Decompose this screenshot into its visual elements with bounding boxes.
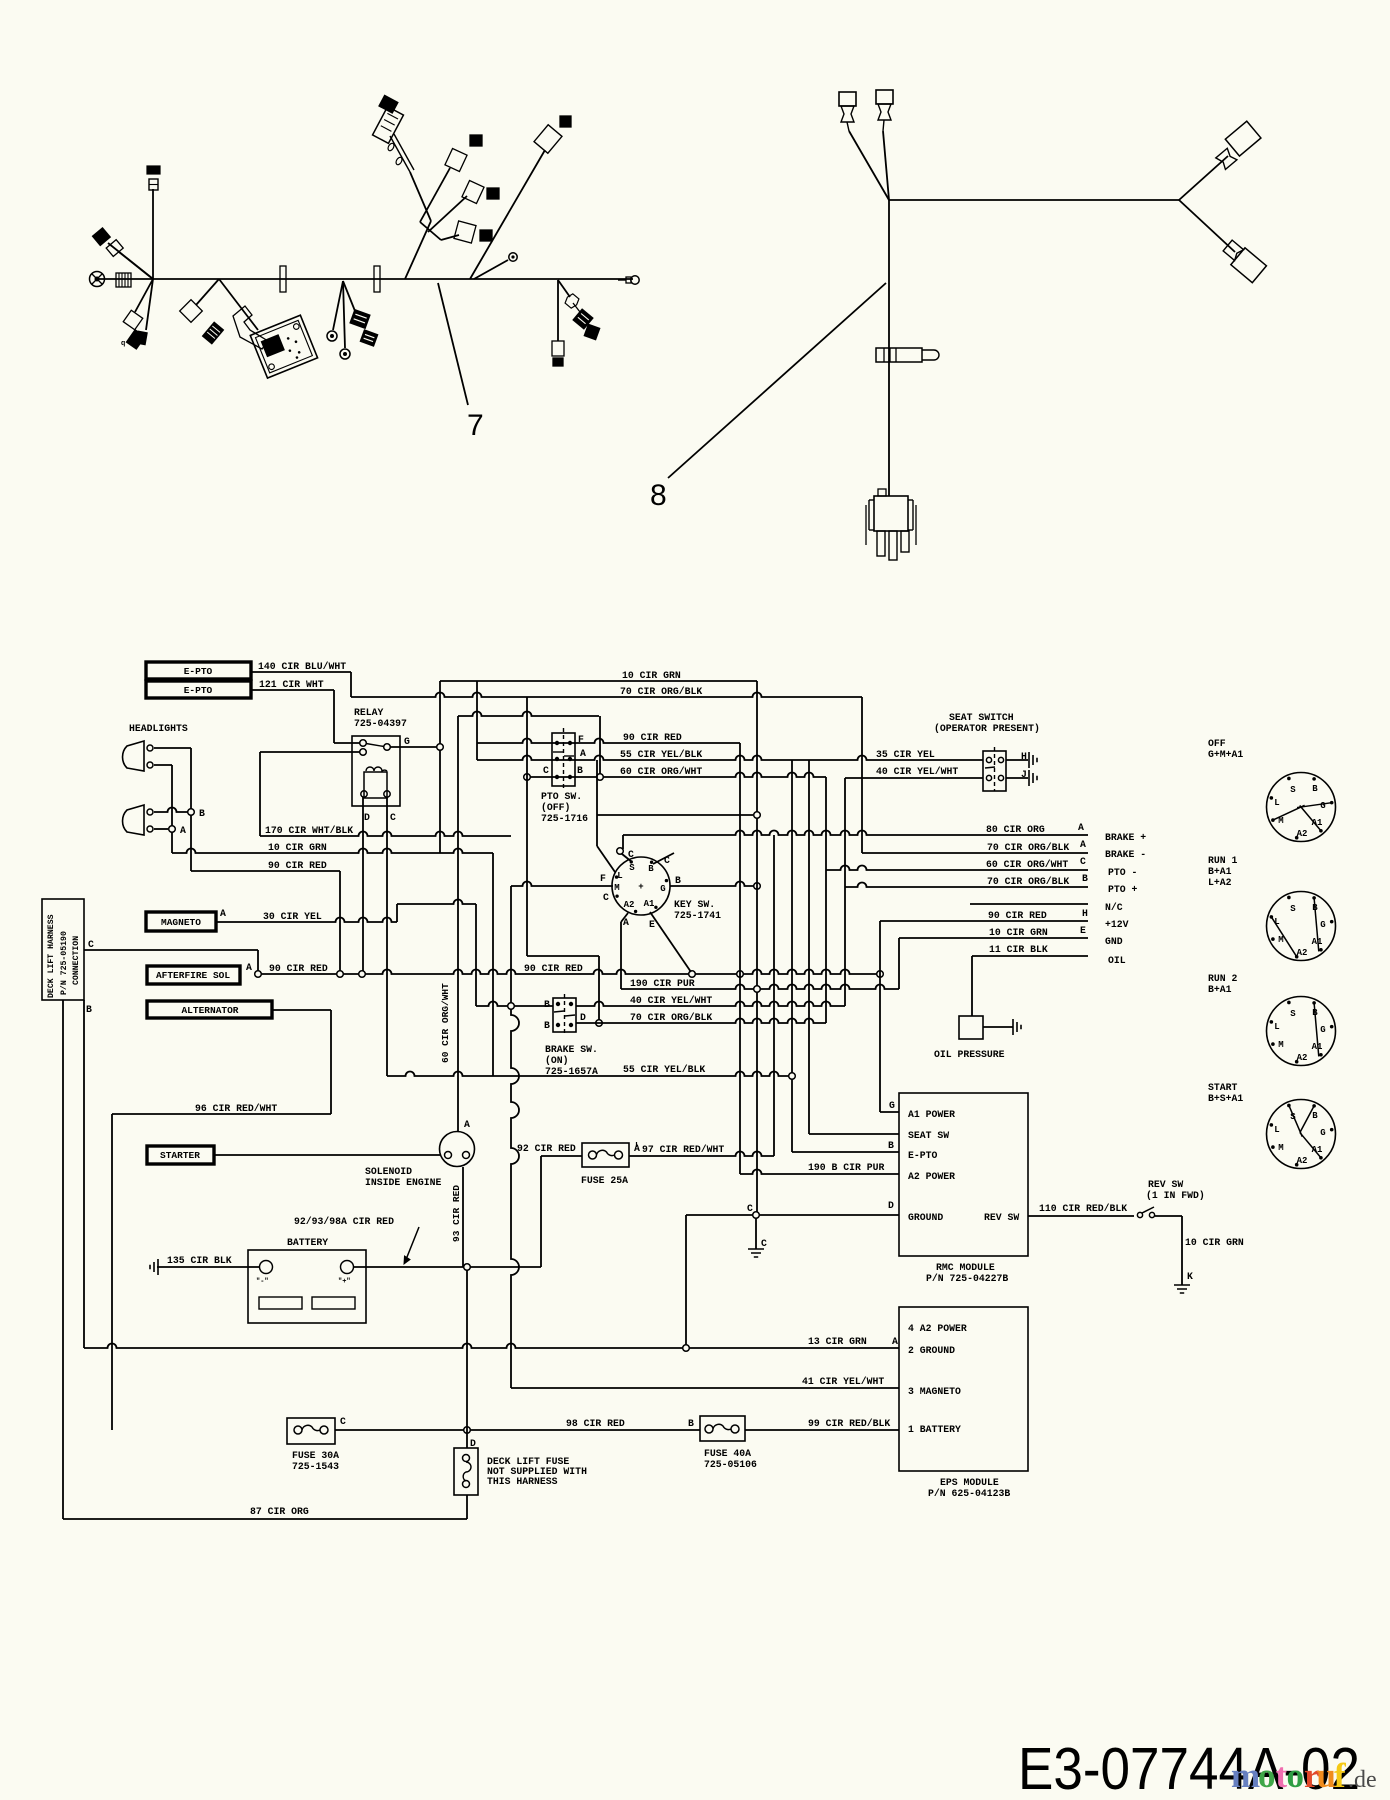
- module RMC MODULE P/N 725-04227B: [899, 1093, 1028, 1256]
- wire row 716: [458, 712, 599, 717]
- harness 7 ring terminal 1: [327, 331, 337, 341]
- harness 7 mounting bracket: [233, 306, 268, 349]
- harness 7 long diagonal branch: [470, 150, 545, 279]
- svg-text:B+A1: B+A1: [1208, 984, 1232, 995]
- module EPS MODULE P/N 625-04123B: [899, 1307, 1028, 1471]
- svg-text:A: A: [464, 1119, 470, 1130]
- wire key E diagonal: [650, 912, 691, 972]
- wire bus vertical x774: [773, 835, 775, 1156]
- harness 8 branch to upper right connector: [1179, 156, 1228, 200]
- wire headlight1 gnd: [154, 764, 172, 766]
- svg-text:KEY SW.: KEY SW.: [674, 899, 715, 910]
- svg-text:C: C: [1080, 856, 1086, 867]
- svg-text:PTO SW.: PTO SW.: [541, 791, 582, 802]
- svg-text:G: G: [1320, 801, 1325, 811]
- harness 7 big branch stem: [405, 221, 431, 279]
- svg-text:55 CIR YEL/BLK: 55 CIR YEL/BLK: [620, 749, 702, 760]
- svg-text:725-1716: 725-1716: [541, 813, 588, 824]
- wire 10 CIR GRN headlights: [172, 849, 493, 854]
- svg-text:S: S: [1290, 904, 1296, 914]
- wire relay lower contact to 170 CIR WHT/BLK: [260, 751, 360, 753]
- svg-text:90 CIR RED: 90 CIR RED: [524, 963, 583, 974]
- wire oil pressure drop: [971, 956, 973, 1016]
- connector ALTERNATOR: [147, 1001, 272, 1018]
- connector STARTER: [147, 1146, 214, 1164]
- svg-text:60 CIR ORG/WHT: 60 CIR ORG/WHT: [440, 983, 451, 1063]
- svg-text:10 CIR GRN: 10 CIR GRN: [1185, 1237, 1244, 1248]
- node PTO B right: [597, 774, 604, 781]
- svg-text:RUN 1: RUN 1: [1208, 855, 1238, 866]
- svg-text:SEAT SWITCH: SEAT SWITCH: [949, 712, 1014, 723]
- harness 7 branch lower-left 2: [146, 279, 153, 330]
- svg-text:(1 IN FWD): (1 IN FWD): [1146, 1190, 1205, 1201]
- svg-text:110 CIR RED/BLK: 110 CIR RED/BLK: [1039, 1203, 1127, 1214]
- svg-text:q: q: [121, 340, 125, 347]
- svg-text:93 CIR RED: 93 CIR RED: [451, 1185, 462, 1242]
- svg-text:13 CIR GRN: 13 CIR GRN: [808, 1336, 867, 1347]
- relay coil: [364, 772, 387, 798]
- fuse DECK LIFT FUSE: [454, 1448, 478, 1495]
- svg-text:RUN 2: RUN 2: [1208, 973, 1238, 984]
- wire key B row to node: [670, 882, 757, 887]
- wire 93 CIR RED: [462, 1167, 464, 1267]
- pin C relay wire: [386, 797, 388, 1076]
- svg-text:"-": "-": [256, 1278, 269, 1286]
- wire 90 CIR RED +12V: [880, 920, 1088, 922]
- wire 40 CIR YEL/WHT to seat: [845, 777, 983, 779]
- svg-text:90 CIR RED: 90 CIR RED: [268, 860, 327, 871]
- harness 7 ring branch: [474, 260, 508, 279]
- wire 140 CIR BLU/WHT: [251, 671, 351, 673]
- wire 70 CIR ORG/BLK brake minus: [862, 852, 1088, 854]
- svg-text:A2 POWER: A2 POWER: [908, 1171, 955, 1182]
- svg-text:B: B: [544, 1020, 550, 1031]
- harness 7 inline clip 1: [280, 266, 286, 292]
- svg-text:30 CIR YEL: 30 CIR YEL: [263, 911, 322, 922]
- harness 7 ring terminal branch: [333, 281, 343, 330]
- wire 90 CIR RED headlights: [191, 870, 340, 872]
- svg-text:90 CIR RED: 90 CIR RED: [623, 732, 682, 743]
- svg-text:A: A: [220, 908, 226, 919]
- svg-text:M: M: [614, 883, 619, 893]
- voltage regulator module on harness 7: [250, 315, 317, 378]
- wire key M to brake: [510, 886, 512, 1006]
- svg-text:96 CIR RED/WHT: 96 CIR RED/WHT: [195, 1103, 277, 1114]
- svg-text:F: F: [600, 873, 606, 884]
- wire relay top-left contact: [334, 742, 360, 744]
- wire 10 CIR GRN top: [440, 680, 757, 682]
- svg-text:725-05106: 725-05106: [704, 1459, 757, 1470]
- svg-text:70 CIR ORG/BLK: 70 CIR ORG/BLK: [630, 1012, 712, 1023]
- svg-text:SEAT SW: SEAT SW: [908, 1130, 949, 1141]
- wire 55 CIR YEL/BLK lower: [387, 1072, 792, 1077]
- harness 8 connector 1: [839, 92, 856, 106]
- svg-text:BRAKE -: BRAKE -: [1105, 849, 1146, 860]
- svg-text:B: B: [1312, 1111, 1318, 1121]
- harness 8 vertical drop wire: [888, 200, 890, 496]
- harness 8 upper right connector: [1225, 121, 1261, 156]
- harness 7 right end eyelet: [618, 279, 626, 281]
- svg-text:55 CIR YEL/BLK: 55 CIR YEL/BLK: [623, 1064, 705, 1075]
- svg-text:S: S: [1290, 1009, 1296, 1019]
- battery BATTERY: [248, 1250, 366, 1323]
- wire 90 CIR RED headlights drop: [339, 871, 341, 974]
- svg-text:2 GROUND: 2 GROUND: [908, 1345, 955, 1356]
- wire 99 CIR RED/BLK: [745, 1429, 899, 1431]
- svg-text:FUSE 30A: FUSE 30A: [292, 1450, 339, 1461]
- wire bus vertical x809 (seat sw): [808, 760, 810, 1134]
- wire row 815: [597, 814, 753, 816]
- svg-text:OIL PRESSURE: OIL PRESSURE: [934, 1049, 1005, 1060]
- wire alternator to 96 CIR RED/WHT: [272, 1009, 331, 1011]
- svg-text:B: B: [1082, 873, 1088, 884]
- wire headlights B down to 90 CIR RED: [190, 815, 192, 871]
- svg-text:C: C: [390, 812, 396, 823]
- wire 90 CIR RED key row: [477, 739, 740, 744]
- svg-text:STARTER: STARTER: [160, 1150, 200, 1161]
- svg-text:E: E: [1080, 925, 1086, 936]
- svg-text:D: D: [364, 812, 370, 823]
- svg-text:90 CIR RED: 90 CIR RED: [269, 963, 328, 974]
- svg-text:A: A: [892, 1336, 898, 1347]
- wire 80 CIR ORG left drop: [622, 835, 624, 849]
- svg-text:S: S: [1290, 785, 1296, 795]
- svg-text:HEADLIGHTS: HEADLIGHTS: [129, 723, 188, 734]
- wire battery plus: [354, 1266, 542, 1268]
- wire seat J: [1006, 777, 1028, 779]
- svg-text:A1: A1: [644, 899, 655, 909]
- harness 8 branch to connector 1: [849, 131, 889, 200]
- svg-text:10 CIR GRN: 10 CIR GRN: [268, 842, 327, 853]
- node x757 row815: [754, 812, 761, 819]
- svg-text:40 CIR YEL/WHT: 40 CIR YEL/WHT: [630, 995, 712, 1006]
- node key B row: [754, 883, 761, 890]
- harness 7 top connector: [149, 179, 158, 190]
- node 90 CIR RED at relay D: [359, 971, 366, 978]
- svg-text:140 CIR BLU/WHT: 140 CIR BLU/WHT: [258, 661, 346, 672]
- svg-text:OFF: OFF: [1208, 738, 1226, 749]
- wire 135 CIR BLK: [157, 1266, 260, 1268]
- wire brake B left: [476, 1002, 553, 1007]
- svg-text:L: L: [1274, 1125, 1279, 1135]
- svg-text:GND: GND: [1105, 936, 1123, 947]
- svg-text:B+S+A1: B+S+A1: [1208, 1093, 1243, 1104]
- ground rev sw: [1174, 1285, 1190, 1293]
- wire 92 CIR RED to battery: [540, 1156, 542, 1267]
- wire vertical from 121 CIR WHT to relay: [333, 690, 335, 743]
- svg-text:C: C: [628, 849, 634, 860]
- svg-text:121 CIR WHT: 121 CIR WHT: [259, 679, 324, 690]
- svg-text:m: m: [1231, 1756, 1260, 1795]
- svg-text:B: B: [86, 1004, 92, 1015]
- svg-text:B: B: [1312, 784, 1318, 794]
- harness 8 bottom connector: [874, 496, 908, 531]
- wire 96 CIR RED/WHT: [112, 1113, 331, 1115]
- wire relay G vertical: [439, 681, 441, 744]
- harness 7 inline clip 3: [374, 266, 380, 292]
- wire 10 CIR GRN GND: [899, 937, 1088, 939]
- node C ground: [753, 1212, 760, 1219]
- svg-text:CONNECTION: CONNECTION: [72, 936, 81, 985]
- key switch KEY SW 725-1741: [612, 857, 670, 915]
- node 55 CIR YEL/BLK at x792: [789, 1073, 796, 1080]
- wire bus vertical x792 (E-PTO): [791, 760, 793, 1152]
- switch BRAKE SW 725-1657A: [553, 998, 576, 1032]
- svg-text:G+M+A1: G+M+A1: [1208, 749, 1243, 760]
- node 90 CIR RED at headlight drop: [337, 971, 344, 978]
- wire bus vertical x880 (+12V): [879, 921, 881, 1112]
- svg-text:B: B: [648, 864, 654, 874]
- svg-text:L: L: [1274, 798, 1279, 808]
- svg-text:D: D: [888, 1200, 894, 1211]
- node afterfire A: [255, 971, 262, 978]
- svg-text:C: C: [340, 1416, 346, 1427]
- harness 7 spring boot: [203, 322, 224, 344]
- svg-text:92/93/98A CIR RED: 92/93/98A CIR RED: [294, 1216, 394, 1227]
- wire 60 CIR ORG/WHT row: [530, 773, 826, 778]
- connector DECK LIFT HARNESS P/N 725-05190: [42, 899, 84, 1000]
- harness 8 branch to lower right connector: [1179, 200, 1235, 252]
- wire deck lift C: [84, 949, 258, 951]
- harness 8 trunk horizontal: [889, 199, 1179, 201]
- svg-text:S: S: [629, 863, 635, 873]
- wire headlights A down to 10 CIR GRN: [171, 832, 173, 853]
- wire bus vertical x740 (A2 power): [739, 743, 741, 1174]
- harness 8 inline fuse holder: [876, 348, 922, 362]
- svg-text:D: D: [580, 1012, 586, 1023]
- svg-text:G: G: [889, 1100, 895, 1111]
- wire 41 CIR YEL/WHT: [511, 1387, 899, 1389]
- svg-text:PTO -: PTO -: [1108, 867, 1137, 878]
- wire 11 CIR BLK: [972, 955, 1088, 957]
- svg-text:87 CIR ORG: 87 CIR ORG: [250, 1506, 309, 1517]
- svg-text:o: o: [1258, 1756, 1276, 1795]
- watermark motoruf.de: [1231, 1756, 1377, 1795]
- svg-text:G: G: [1320, 920, 1325, 930]
- svg-text:40 CIR YEL/WHT: 40 CIR YEL/WHT: [876, 766, 958, 777]
- wire PTO C to brake sw: [527, 955, 599, 957]
- svg-text:B: B: [675, 875, 681, 886]
- connector AFTERFIRE SOL: [147, 966, 240, 984]
- wire seat H: [1006, 759, 1028, 761]
- svg-text:A: A: [246, 962, 252, 973]
- wire 13 CIR GRN: [84, 1344, 899, 1348]
- svg-text:MAGNETO: MAGNETO: [161, 917, 201, 928]
- wire 70 CIR ORG/BLK brake: [576, 1019, 826, 1024]
- wire headlight2 gnd: [154, 828, 168, 830]
- svg-text:FUSE 25A: FUSE 25A: [581, 1175, 628, 1186]
- node 90 CIR RED at A2 vertical: [737, 971, 744, 978]
- svg-text:f: f: [1334, 1756, 1346, 1795]
- svg-text:97 CIR RED/WHT: 97 CIR RED/WHT: [642, 1144, 724, 1155]
- svg-text:OIL: OIL: [1108, 955, 1126, 966]
- svg-text:G: G: [1320, 1128, 1325, 1138]
- wire 30 CIR YEL: [216, 918, 397, 923]
- wire headlight2 hot: [154, 808, 188, 813]
- svg-text:M: M: [1278, 935, 1283, 945]
- harness 7 branch lower-left: [135, 279, 153, 312]
- svg-text:E-PTO: E-PTO: [908, 1150, 938, 1161]
- fuse FUSE 40A 725-05106: [700, 1416, 745, 1441]
- svg-text:EPS MODULE: EPS MODULE: [940, 1477, 999, 1488]
- svg-text:P/N 725-04227B: P/N 725-04227B: [926, 1273, 1008, 1284]
- svg-text:B+A1: B+A1: [1208, 866, 1232, 877]
- harness 8 leader line for label 8: [668, 283, 886, 478]
- svg-text:FUSE 40A: FUSE 40A: [704, 1448, 751, 1459]
- svg-text:C: C: [543, 765, 549, 776]
- wire headlight1 hot: [154, 747, 191, 749]
- wire key top C: [622, 854, 632, 862]
- svg-text:60 CIR ORG/WHT: 60 CIR ORG/WHT: [620, 766, 702, 777]
- harness 7 upper-left connector: [93, 228, 111, 246]
- svg-text:GROUND: GROUND: [908, 1212, 943, 1223]
- svg-text:(OFF): (OFF): [541, 802, 570, 813]
- svg-text:M: M: [1278, 1143, 1283, 1153]
- wire 60 CIR ORG/WHT pto minus: [826, 866, 1088, 871]
- harness 7 ring terminal 2: [340, 349, 350, 359]
- svg-text:DECK LIFT HARNESS: DECK LIFT HARNESS: [47, 914, 56, 998]
- wire 60 CIR ORG/WHT vertical: [457, 716, 459, 1131]
- svg-text:41 CIR YEL/WHT: 41 CIR YEL/WHT: [802, 1376, 884, 1387]
- wire vertical 477: [476, 681, 478, 760]
- harness 8 branch to connector 2: [883, 131, 889, 200]
- wire 90 CIR RED main: [261, 970, 880, 975]
- svg-text:8: 8: [650, 479, 667, 512]
- svg-text:P/N 625-04123B: P/N 625-04123B: [928, 1488, 1010, 1499]
- svg-text:1 BATTERY: 1 BATTERY: [908, 1424, 961, 1435]
- harness 7 drop branch: [557, 280, 559, 341]
- svg-text:B: B: [544, 999, 550, 1010]
- svg-text:B: B: [688, 1418, 694, 1429]
- svg-text:L: L: [617, 871, 622, 881]
- node brake B left: [508, 1003, 515, 1010]
- svg-text:70 CIR ORG/BLK: 70 CIR ORG/BLK: [987, 842, 1069, 853]
- harness 7 bulb branch: [558, 280, 570, 297]
- svg-text:A: A: [580, 748, 586, 759]
- svg-text:REV SW: REV SW: [1148, 1179, 1183, 1190]
- node G relay: [437, 744, 444, 751]
- ground seat J: [1029, 770, 1037, 786]
- svg-text:L: L: [1274, 1022, 1279, 1032]
- svg-text:(OPERATOR PRESENT): (OPERATOR PRESENT): [934, 723, 1040, 734]
- svg-text:.de: .de: [1348, 1767, 1377, 1793]
- svg-text:92 CIR RED: 92 CIR RED: [517, 1143, 576, 1154]
- ground oil pressure: [1013, 1019, 1021, 1035]
- wire RMC E-PTO: [792, 1151, 899, 1153]
- svg-text:60 CIR ORG/WHT: 60 CIR ORG/WHT: [986, 859, 1068, 870]
- harness 7 diag connector: [534, 125, 562, 153]
- svg-text:725-1741: 725-1741: [674, 910, 721, 921]
- svg-text:SOLENOID: SOLENOID: [365, 1166, 412, 1177]
- svg-text:190 CIR PUR: 190 CIR PUR: [630, 978, 695, 989]
- wire deck lift fuse to 87 CIR ORG: [466, 1495, 468, 1519]
- svg-text:B: B: [888, 1140, 894, 1151]
- wire harness 7 main trunk: [96, 278, 633, 280]
- svg-text:C: C: [603, 892, 609, 903]
- svg-text:B: B: [199, 808, 205, 819]
- harness 7 big connector: [373, 107, 404, 144]
- svg-text:725-1543: 725-1543: [292, 1461, 339, 1472]
- connector E-PTO 2: [146, 681, 251, 698]
- svg-text:RELAY: RELAY: [354, 707, 384, 718]
- wire key F diagonal: [597, 846, 615, 872]
- harness 7 branch upper-left 2: [119, 252, 153, 279]
- wire 110 CIR RED/BLK: [1028, 1215, 1134, 1217]
- svg-text:B: B: [577, 765, 583, 776]
- svg-text:35 CIR YEL: 35 CIR YEL: [876, 749, 935, 760]
- wire deck lift left down: [62, 1000, 64, 1519]
- svg-text:G: G: [660, 884, 665, 894]
- svg-text:10 CIR GRN: 10 CIR GRN: [622, 670, 681, 681]
- node 190 CIR PUR at x757: [754, 986, 761, 993]
- svg-text:+12V: +12V: [1105, 919, 1129, 930]
- harness 8 connector 2: [876, 90, 893, 104]
- svg-text:H: H: [1082, 908, 1088, 919]
- wire relay G pin: [390, 746, 440, 748]
- svg-text:E: E: [649, 919, 655, 930]
- wire starter to solenoid: [214, 1154, 440, 1156]
- svg-text:AFTERFIRE SOL: AFTERFIRE SOL: [156, 970, 230, 981]
- svg-text:M: M: [1278, 1040, 1283, 1050]
- switch REV SW (1 IN FWD): [1137, 1212, 1142, 1217]
- fuse FUSE 25A: [582, 1143, 629, 1167]
- wire PTO C drop: [526, 697, 528, 956]
- svg-text:o: o: [1287, 1756, 1305, 1795]
- wire RMC seat sw: [809, 1133, 899, 1135]
- svg-text:135 CIR BLK: 135 CIR BLK: [167, 1255, 232, 1266]
- svg-text:H: H: [1021, 751, 1027, 762]
- svg-text:A: A: [180, 825, 186, 836]
- wire 170 CIR WHT/BLK: [259, 752, 261, 836]
- svg-text:C: C: [747, 1203, 753, 1214]
- node brake D: [596, 1020, 603, 1027]
- relay 725-04397: [352, 736, 400, 806]
- ground C node: [748, 1249, 764, 1257]
- wire bus vertical x493: [492, 853, 494, 1076]
- svg-text:THIS HARNESS: THIS HARNESS: [487, 1476, 558, 1487]
- wire 92 CIR RED: [541, 1155, 582, 1157]
- svg-text:"+": "+": [338, 1278, 351, 1286]
- svg-text:A1 POWER: A1 POWER: [908, 1109, 955, 1120]
- svg-text:C: C: [761, 1238, 767, 1249]
- svg-text:E-PTO: E-PTO: [184, 685, 213, 696]
- wire deck lift B down: [83, 1000, 85, 1348]
- wire 70 CIR ORG/BLK pto plus: [845, 883, 1088, 888]
- leader line for label 7: [438, 283, 468, 405]
- wire battery node down: [466, 1270, 468, 1448]
- pin D relay wire: [362, 797, 364, 974]
- svg-text:G: G: [1320, 1025, 1325, 1035]
- svg-text:A: A: [1080, 839, 1086, 850]
- wire rev sw to ground: [1155, 1215, 1182, 1217]
- node A headlights: [169, 826, 176, 833]
- wire 40 CIR YEL/WHT brake: [576, 1002, 845, 1007]
- harness 7 striped connector at left: [116, 273, 131, 287]
- svg-text:10 CIR GRN: 10 CIR GRN: [989, 927, 1048, 938]
- svg-text:N/C: N/C: [1105, 902, 1123, 913]
- connector E-PTO 1: [146, 662, 251, 679]
- svg-text:4 A2 POWER: 4 A2 POWER: [908, 1323, 967, 1334]
- svg-text:170 CIR WHT/BLK: 170 CIR WHT/BLK: [265, 825, 353, 836]
- wire bus vertical x899 (GND): [898, 938, 900, 989]
- ground battery: [150, 1259, 158, 1275]
- svg-text:11 CIR BLK: 11 CIR BLK: [989, 944, 1048, 955]
- node 98 CIR RED deck fuse: [464, 1427, 471, 1434]
- svg-text:BRAKE SW.: BRAKE SW.: [545, 1044, 598, 1055]
- svg-text:90 CIR RED: 90 CIR RED: [988, 910, 1047, 921]
- svg-text:190 B CIR PUR: 190 B CIR PUR: [808, 1162, 885, 1173]
- sensor OIL PRESSURE: [959, 1016, 983, 1039]
